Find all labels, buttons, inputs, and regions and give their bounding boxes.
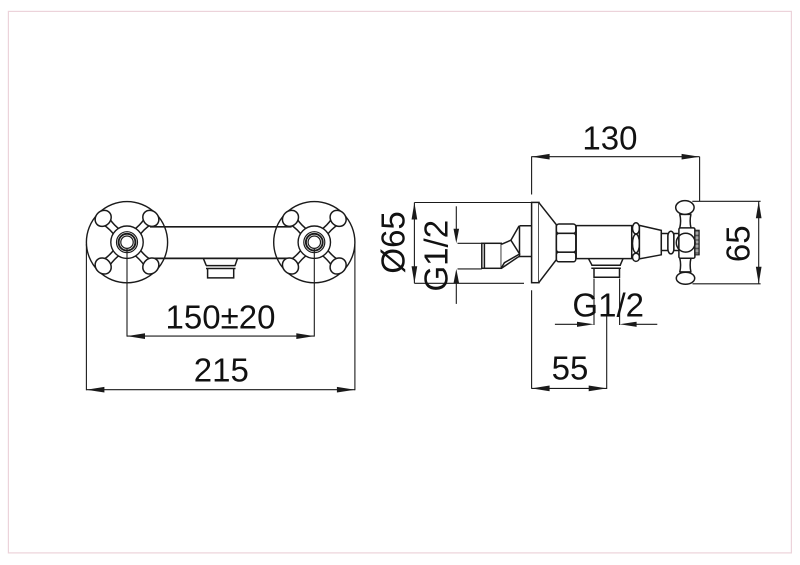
arrowheads bbox=[86, 154, 761, 393]
edge extension line far right bbox=[354, 244, 356, 390]
stem tube b bbox=[674, 234, 679, 251]
svg-text:G1/2: G1/2 bbox=[572, 286, 644, 323]
arrows 150±20 bbox=[127, 333, 145, 339]
escutcheon bell lip bbox=[532, 202, 539, 282]
bottom neck bbox=[679, 258, 691, 272]
arrows 215 bbox=[86, 387, 104, 393]
dim line 130 bbox=[532, 156, 700, 158]
knurled screw bbox=[695, 230, 699, 255]
spout front bbox=[204, 259, 238, 278]
svg-text:G1/2: G1/2 bbox=[418, 220, 455, 292]
center extension line left handle bbox=[126, 249, 128, 337]
arrows G12 bottom bbox=[577, 322, 594, 327]
G12 left leader bottom bbox=[455, 280, 457, 304]
svg-text:150±20: 150±20 bbox=[166, 299, 276, 336]
escutcheon circle left handle bbox=[86, 202, 167, 283]
handle extension line 130 right bbox=[699, 157, 701, 202]
arm side lines bbox=[103, 219, 150, 266]
dim line 150±20 bbox=[127, 335, 314, 337]
escutcheon cone bbox=[539, 203, 556, 283]
svg-text:130: 130 bbox=[582, 119, 637, 156]
svg-text:Ø65: Ø65 bbox=[375, 211, 412, 273]
outlet under tube bbox=[589, 259, 624, 278]
elbow sliver bbox=[502, 257, 518, 268]
svg-text:65: 65 bbox=[720, 225, 757, 262]
55 extension right bbox=[606, 316, 608, 389]
arrows dia65 bbox=[412, 203, 418, 220]
G12 left extension bottom bbox=[458, 268, 482, 270]
outlet extension right bbox=[619, 279, 621, 326]
arrows 65 bbox=[756, 201, 762, 218]
cross handle left bbox=[92, 207, 162, 277]
dia65 extension bottom bbox=[414, 282, 524, 284]
stem tube a bbox=[661, 234, 668, 251]
G12 left leader top bbox=[455, 206, 457, 232]
wall extension line bbox=[531, 156, 533, 388]
dia65 extension top bbox=[414, 202, 531, 204]
bead ring column bbox=[633, 223, 640, 262]
valve body tube bbox=[576, 226, 632, 259]
65 extension bottom bbox=[693, 283, 761, 285]
65 dim line bbox=[758, 201, 760, 283]
connector rectangle at wall bbox=[520, 226, 532, 257]
edge extension line far left bbox=[85, 244, 87, 390]
65 extension top bbox=[692, 200, 760, 202]
arrows 130 bbox=[532, 154, 550, 160]
G12 bottom arrow tails bbox=[555, 323, 583, 325]
inlet square pipe bbox=[482, 226, 532, 269]
cross handle right bbox=[279, 207, 349, 277]
bottom ball bbox=[676, 272, 694, 284]
arrows 55 bbox=[532, 386, 550, 392]
55 dim line bbox=[532, 387, 607, 389]
tapered cone toward handle bbox=[639, 225, 661, 259]
svg-text:215: 215 bbox=[194, 352, 249, 389]
dia65 dim line bbox=[413, 203, 415, 284]
top neck bbox=[679, 214, 691, 227]
top ball bbox=[676, 201, 694, 215]
G12 left extension top bbox=[458, 242, 482, 244]
center extension line right handle bbox=[313, 249, 315, 337]
hex nut bbox=[556, 224, 575, 262]
outlet extension left bbox=[593, 279, 595, 326]
wire body top edge bbox=[150, 226, 292, 228]
wire body bottom edge bbox=[150, 257, 291, 259]
arm fills bbox=[104, 219, 151, 266]
dim line 215 bbox=[86, 389, 355, 391]
arrows G12 left bbox=[454, 229, 460, 244]
elbow cone to flange bbox=[511, 226, 520, 257]
hub bbox=[111, 226, 143, 258]
ring disc bbox=[668, 231, 674, 254]
hub circle side bbox=[676, 233, 695, 252]
escutcheon circle right handle bbox=[274, 202, 355, 283]
lobes bbox=[92, 207, 162, 277]
handle hub side bbox=[679, 228, 695, 258]
elbow tilted quad bbox=[501, 240, 519, 268]
svg-text:55: 55 bbox=[552, 349, 589, 386]
